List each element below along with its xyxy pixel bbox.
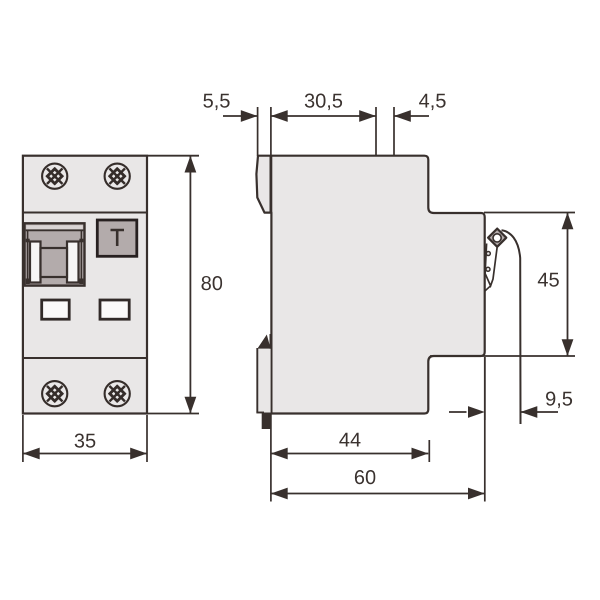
dimension 9,5 right arrow	[521, 406, 559, 418]
dimension 35 line with arrows	[23, 448, 147, 460]
breaker front body	[23, 156, 147, 414]
breaker side body outline	[256, 156, 484, 414]
dimension 9,5 extension line	[484, 357, 486, 420]
label 44	[339, 433, 360, 447]
toggle switch assembly	[25, 223, 85, 285]
dimension 5,5 arrow	[223, 110, 258, 122]
label 45	[538, 273, 559, 287]
plug-on jaw curve	[502, 230, 521, 424]
right terminal window	[100, 300, 129, 319]
front top separator line	[23, 212, 147, 214]
label 30,5	[305, 94, 342, 111]
terminal clamp strip	[485, 244, 497, 292]
left terminal window	[42, 300, 69, 319]
back DIN-rail edge line (thick at bottom clip)	[269, 334, 272, 414]
dimension 9,5 left arrow	[449, 406, 485, 418]
dimension 45 extension lines	[430, 213, 575, 357]
dimension 30,5 line with arrows	[271, 110, 376, 122]
dimension 35 extension lines	[23, 415, 147, 462]
dimension 60 extension lines	[271, 357, 485, 502]
dimension 4,5 arrow	[394, 110, 429, 122]
dimension 80 line with arrows	[185, 156, 197, 414]
label 35	[75, 434, 96, 448]
label 9,5	[546, 392, 572, 409]
bottom DIN clip pull tab	[262, 413, 271, 430]
bottom DIN clip black wedge	[257, 335, 270, 349]
front bottom separator line	[23, 357, 147, 359]
dimension 5,5 extension line	[257, 107, 259, 156]
label 60	[355, 470, 375, 484]
bottom DIN clip body	[256, 348, 270, 413]
label 5,5	[203, 94, 229, 110]
dimension 30,5 extension lines	[271, 107, 376, 156]
dimension 45 line with arrows	[562, 213, 574, 357]
screw top-right	[105, 164, 130, 189]
dimension 80 extension lines	[148, 156, 199, 414]
dimension 44 extension line	[428, 440, 430, 462]
dimension 44 line with arrows	[271, 448, 428, 460]
dimension 4,5 extension line	[393, 107, 395, 155]
screw bottom-left	[42, 381, 67, 406]
screw bottom-right	[105, 381, 130, 406]
test button T	[97, 220, 137, 256]
label 4,5	[419, 94, 446, 110]
back DIN-rail edge line (thick at top clip)	[269, 156, 272, 213]
dimension 60 line with arrows	[271, 488, 485, 500]
terminal screw diamond	[488, 229, 506, 247]
screw top-left	[42, 164, 67, 189]
label 80	[202, 276, 223, 290]
